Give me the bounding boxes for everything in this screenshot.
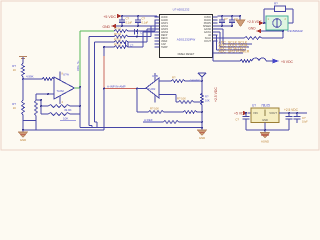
svg-text:R?: R?	[12, 102, 16, 106]
svg-text:DMEA RESET: DMEA RESET	[178, 52, 195, 56]
svg-text:R? 10: R? 10	[114, 32, 122, 36]
svg-text:R? 10K: R? 10K	[177, 97, 186, 101]
svg-text:TL062: TL062	[148, 87, 156, 91]
svg-text:C?: C?	[224, 17, 228, 21]
svg-text:78L05: 78L05	[261, 104, 270, 108]
svg-text:R?: R?	[12, 64, 16, 68]
svg-text:10K: 10K	[63, 116, 68, 120]
svg-text:C?: C?	[126, 17, 130, 21]
svg-text:C?: C?	[302, 116, 306, 120]
svg-text:U?A: U?A	[63, 72, 69, 76]
svg-text:R? 10: R? 10	[114, 27, 122, 31]
svg-text:C?: C?	[235, 118, 239, 122]
svg-text:ADC_SPD POWER: ADC_SPD POWER	[219, 49, 250, 53]
svg-text:TL062: TL062	[57, 89, 65, 93]
svg-text:U?: U?	[252, 104, 256, 108]
svg-text:VIN+ S+: VIN+ S+	[76, 60, 80, 71]
svg-text:+5 VDC: +5 VDC	[281, 60, 294, 64]
svg-text:R? 10K: R? 10K	[150, 107, 159, 111]
svg-text:R? 10: R? 10	[114, 43, 122, 47]
svg-text:+2.5 VDC: +2.5 VDC	[284, 108, 299, 112]
svg-text:AGND: AGND	[261, 140, 269, 144]
svg-text:1K: 1K	[13, 106, 16, 110]
svg-text:1K: 1K	[13, 68, 16, 72]
svg-text:GND: GND	[199, 136, 205, 140]
svg-text:R?: R?	[172, 76, 176, 80]
svg-text:10uF: 10uF	[302, 121, 308, 124]
svg-text:49.9K: 49.9K	[64, 108, 72, 112]
svg-text:+2.5 VDC: +2.5 VDC	[214, 87, 218, 102]
svg-text:VOUT: VOUT	[269, 111, 277, 115]
svg-text:4.99K: 4.99K	[26, 75, 34, 79]
svg-text:R?: R?	[274, 2, 278, 6]
svg-text:VIN: VIN	[253, 111, 258, 115]
svg-text:ADS1232IPW: ADS1232IPW	[177, 38, 196, 42]
svg-text:A-INP IN-AMP: A-INP IN-AMP	[107, 84, 126, 88]
svg-text:+5 VDC: +5 VDC	[103, 15, 116, 19]
svg-text:0.1uF: 0.1uF	[126, 21, 133, 25]
svg-text:TEMP: TEMP	[161, 46, 168, 49]
svg-text:GND: GND	[248, 26, 256, 30]
svg-text:U? ADS1232: U? ADS1232	[173, 8, 190, 12]
svg-text:0.1uF: 0.1uF	[142, 21, 149, 25]
svg-text:10K: 10K	[205, 99, 210, 103]
svg-text:C?: C?	[142, 17, 146, 21]
svg-text:R?: R?	[205, 95, 209, 99]
svg-text:R? 10: R? 10	[114, 38, 122, 42]
svg-text:A REF: A REF	[144, 118, 153, 122]
svg-text:GND: GND	[20, 138, 26, 142]
svg-text:+2.5VDC: +2.5VDC	[188, 78, 200, 82]
svg-text:4.9152MHZ: 4.9152MHZ	[287, 29, 303, 33]
svg-text:DOUT: DOUT	[204, 40, 211, 43]
svg-text:GND: GND	[262, 118, 268, 122]
svg-text:GND: GND	[102, 25, 110, 29]
